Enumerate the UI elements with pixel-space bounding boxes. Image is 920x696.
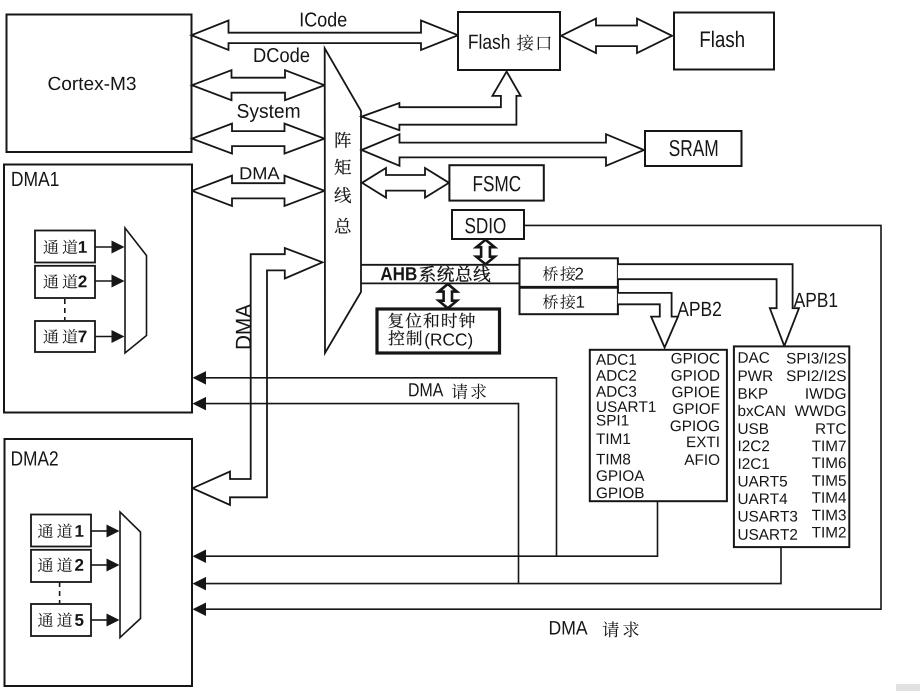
dashed line between 通道2 and 通道7	[64, 299, 66, 320]
bus arrow Flash interface to Flash	[561, 19, 672, 53]
label APB1	[794, 293, 805, 307]
wire DMA request: APB2 peripherals to DMA2	[193, 501, 658, 563]
bus arrow ICode	[192, 12, 459, 50]
box DMA2	[5, 439, 193, 686]
arrow DMA2 通道5 to mux	[91, 614, 120, 627]
box SDIO	[452, 210, 524, 239]
box Cortex-M3	[7, 15, 192, 153]
label DMA vertical	[236, 304, 251, 348]
bus matrix 总线矩阵	[325, 48, 361, 353]
box bridge2 桥接2	[520, 258, 618, 287]
box Flash 接口	[458, 12, 560, 70]
bus arrow System	[192, 104, 325, 154]
arrow 通道2 to mux	[95, 275, 125, 288]
wire branch to DMA1 request 1	[193, 371, 557, 556]
wire DMA request: SDIO to DMA2 (long right-side wire)	[193, 225, 882, 616]
label DMA request upper	[409, 383, 486, 399]
box APB2 peripherals	[590, 350, 727, 501]
watermark fragment	[896, 684, 920, 691]
AHB system bus band 系统总线	[361, 265, 520, 284]
box RCC 复位和时钟控制	[377, 309, 500, 353]
arrow 通道1 to mux	[95, 241, 125, 254]
arrow AHB bus to RCC	[439, 284, 457, 308]
bus arrow bus matrix to FSMC	[362, 168, 449, 198]
box DMA1 通道2	[35, 266, 95, 298]
bus arrow DCode	[192, 48, 325, 101]
wire branch to DMA1 request 2	[193, 397, 519, 584]
box DMA1 通道7	[35, 321, 95, 352]
box bridge1 桥接1	[520, 287, 618, 314]
bus elbow arrow DMA2 to bus matrix	[193, 248, 323, 505]
arrow 通道7 to mux	[95, 330, 125, 343]
box SRAM	[645, 131, 742, 166]
box APB1 peripherals	[734, 346, 849, 547]
elbow arrow bridge1 to APB2 peripherals	[618, 293, 678, 348]
bus arrow DMA (DMA1 to bus matrix)	[192, 167, 325, 206]
box DMA2 通道5	[31, 604, 91, 636]
bus arrow bus matrix to SRAM	[362, 134, 645, 166]
label DMA request lower	[550, 621, 639, 637]
box DMA2 通道2	[31, 550, 91, 582]
arrow SDIO to AHB bus	[476, 240, 494, 265]
box Flash	[674, 13, 774, 70]
wire DMA request: APB1 peripherals to DMA2	[193, 547, 782, 590]
box FSMC	[449, 165, 543, 200]
elbow arrow bridge2 to APB1 peripherals	[618, 264, 799, 346]
arrow DMA2 通道1 to mux	[91, 525, 120, 538]
DMA1 mux trapezoid	[125, 228, 147, 353]
dashed line between DMA2 通道2 and 通道5	[59, 582, 61, 603]
box DMA1 通道1	[35, 231, 95, 263]
label APB2	[677, 302, 689, 316]
arrow DMA2 通道2 to mux	[91, 559, 120, 572]
box DMA2 通道1	[31, 515, 91, 547]
box DMA1	[4, 165, 192, 413]
bus elbow arrow bus matrix to Flash interface	[362, 72, 521, 131]
DMA2 mux trapezoid	[120, 512, 141, 638]
